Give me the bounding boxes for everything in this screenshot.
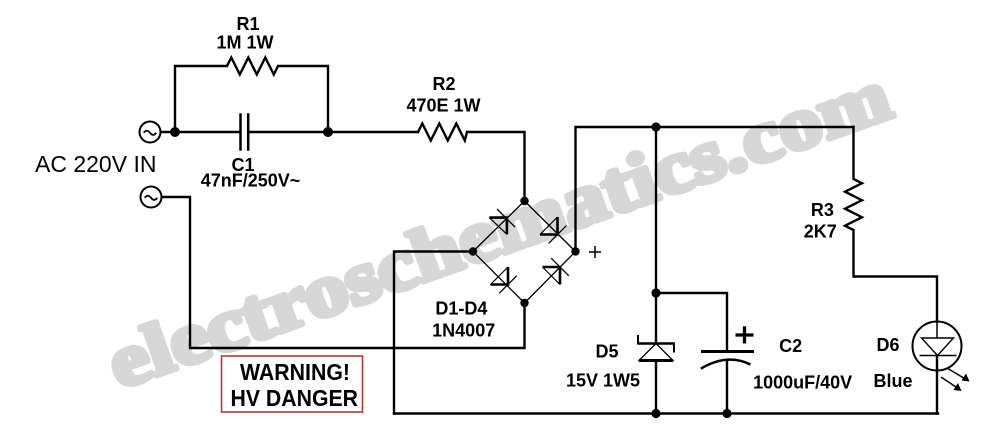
- wire: D5 anode to bottom rail: [655, 361, 657, 414]
- svg-text:AC 220V IN: AC 220V IN: [35, 151, 156, 177]
- svg-text:D1-D4: D1-D4: [435, 299, 487, 319]
- wire: plus rail down to D5: [655, 127, 657, 293]
- svg-text:Blue: Blue: [873, 371, 912, 391]
- diode D1 (left-top edge): [489, 209, 515, 234]
- svg-text:1M 1W: 1M 1W: [216, 33, 273, 53]
- capacitor C2: [701, 352, 754, 369]
- svg-text:D6: D6: [876, 335, 899, 355]
- junction: bridge bottom node (AC in): [520, 299, 528, 307]
- svg-text:1000uF/40V: 1000uF/40V: [753, 373, 852, 393]
- junction: bridge right node (plus): [571, 247, 579, 255]
- diode D4 (bottom-right edge): [543, 258, 569, 284]
- svg-text:C2: C2: [779, 336, 802, 356]
- junction: bottom rail / C2: [722, 409, 731, 418]
- D5 cathode bar: [638, 342, 674, 345]
- junction: plus rail / D5 branch: [651, 122, 660, 131]
- diode D3 (left-bottom edge): [491, 267, 517, 293]
- junction: AC line1 at R1/C1 left: [170, 127, 180, 137]
- diode D2 (top-right edge): [540, 217, 566, 243]
- zener diode D5: [638, 335, 674, 361]
- svg-text:47nF/250V~: 47nF/250V~: [201, 171, 301, 191]
- resistor R2 zigzag: [418, 124, 467, 141]
- svg-text:1N4007: 1N4007: [432, 321, 495, 341]
- resistor R1 with parallel loop wires: [175, 58, 328, 133]
- wire: branch to C2: [656, 293, 727, 351]
- wire: LED cathode to bottom rail: [936, 356, 938, 414]
- svg-text:HV DANGER: HV DANGER: [231, 385, 359, 411]
- terminal AC line 1: [140, 122, 161, 143]
- svg-text:470E 1W: 470E 1W: [406, 96, 480, 116]
- junction: R1/C1 right to R2: [323, 127, 333, 137]
- resistor R3 leads and zigzag: [845, 127, 937, 322]
- wire: bridge left corner to minus rail down: [394, 252, 473, 414]
- wire bridge edge left-top: [473, 201, 525, 252]
- svg-text:15V 1W5: 15V 1W5: [566, 371, 640, 391]
- svg-text:WARNING!: WARNING!: [240, 359, 350, 385]
- wire: bridge right corner up to plus rail: [576, 127, 854, 252]
- C2 plus polarity mark: [736, 326, 754, 343]
- wire: bottom rail: [394, 412, 938, 414]
- plus sign at bridge DC output node: [589, 246, 601, 258]
- wire: R2 to bridge top corner: [467, 132, 525, 201]
- svg-text:R1: R1: [236, 14, 259, 34]
- junction: D5 / C2 branch: [651, 288, 660, 297]
- junction: bottom rail / D5: [651, 409, 660, 418]
- terminal AC line 2: [141, 187, 162, 208]
- svg-text:R2: R2: [432, 74, 455, 94]
- svg-text:D5: D5: [595, 342, 618, 362]
- capacitor C1 plates: [239, 115, 242, 150]
- LED D6: [913, 322, 970, 392]
- warning box: [222, 356, 363, 412]
- wire: AC line1 terminal to C1 left plate: [161, 131, 240, 133]
- svg-text:2K7: 2K7: [804, 222, 837, 242]
- wire: D5 cathode lead: [655, 293, 657, 344]
- wire: C1 right plate to R2: [249, 131, 418, 133]
- wire bridge edge top-right: [525, 201, 576, 252]
- wire: C2 to bottom rail: [726, 362, 728, 414]
- wire bridge edge bottom-right: [525, 252, 576, 304]
- svg-text:R3: R3: [811, 200, 834, 220]
- junction: bridge left node (minus): [469, 247, 477, 255]
- junction: bridge top node (AC in): [520, 197, 528, 205]
- wire bridge edge left-bottom: [473, 252, 525, 304]
- wire: AC line2 terminal down and right to bridge bottom corner: [162, 197, 525, 348]
